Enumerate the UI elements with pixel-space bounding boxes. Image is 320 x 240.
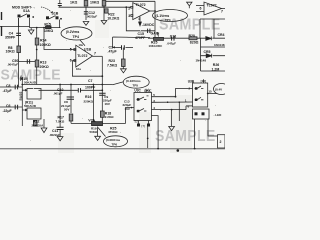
svg-text:C6: C6	[6, 104, 11, 108]
diode CR5	[206, 54, 212, 58]
capacitor C15	[148, 29, 150, 33]
svg-text:TP6: TP6	[112, 143, 118, 147]
wire C11 ground stem	[59, 130, 61, 137]
svg-text:TL072: TL072	[77, 54, 87, 58]
svg-text:.0047μF: .0047μF	[7, 63, 18, 67]
capacitor C14	[122, 45, 125, 49]
resistor R22	[105, 9, 108, 13]
svg-text:1N4148: 1N4148	[196, 58, 207, 62]
wire R12 ground stem	[43, 119, 45, 128]
svg-text:16V: 16V	[105, 102, 110, 106]
svg-text:50KAUD: 50KAUD	[24, 81, 37, 85]
wire S2B down	[195, 119, 218, 149]
wire top right bus	[148, 37, 225, 39]
wire to left edge	[0, 25, 30, 27]
switch S2A contacts	[137, 124, 150, 127]
svg-text:20KΩ5A: 20KΩ5A	[32, 123, 45, 127]
svg-text:10KΩ: 10KΩ	[90, 0, 99, 4]
switch S2B box	[193, 109, 210, 119]
resistor R20	[189, 37, 197, 40]
resistor R8	[17, 46, 21, 53]
node CR5 box	[201, 39, 226, 72]
svg-text:TL072: TL072	[207, 4, 217, 8]
svg-text:.47μF: .47μF	[3, 89, 13, 93]
svg-text:16V: 16V	[125, 107, 130, 111]
svg-text:2: 2	[128, 7, 130, 11]
svg-text:50KΩ: 50KΩ	[90, 130, 99, 134]
op-amp U1A	[133, 3, 150, 20]
svg-text:(0.2Vrms: (0.2Vrms	[66, 30, 80, 34]
capacitor C12	[84, 12, 88, 14]
svg-text:7.5KΩ: 7.5KΩ	[107, 63, 117, 67]
wire left edge stub 2	[1, 26, 3, 36]
resistor R21 10K	[102, 1, 106, 7]
scan streak bands	[170, 95, 192, 153]
svg-text:S2: S2	[135, 120, 139, 124]
potentiometer BASS R10	[27, 89, 41, 100]
speckle noise	[9, 10, 216, 141]
ground 1	[83, 22, 89, 26]
resistor R9 1K	[84, 1, 88, 7]
wire U1B feedback	[72, 61, 102, 77]
svg-text:.47μF: .47μF	[108, 49, 118, 53]
wire BASS bus	[21, 77, 23, 126]
resistor R17	[69, 114, 73, 121]
potentiometer VOL R19	[92, 119, 103, 126]
svg-text:CR5: CR5	[204, 50, 211, 54]
svg-text:470PF: 470PF	[135, 36, 146, 40]
wire R23 stem	[122, 48, 124, 69]
op-amp U2A	[204, 2, 222, 15]
svg-text:7: 7	[221, 10, 223, 14]
ground 2	[101, 21, 107, 25]
resistor R13	[35, 60, 39, 67]
capacitor C9	[99, 93, 105, 95]
svg-text:.22μF: .22μF	[3, 109, 13, 113]
resistor R12	[34, 121, 38, 127]
switch S1B	[46, 16, 62, 20]
test point TP5 oval	[123, 76, 149, 88]
capacitor C8	[15, 85, 17, 90]
wire VOL column	[92, 85, 94, 123]
wire U2A pins	[196, 6, 225, 12]
capacitor C50	[27, 59, 29, 63]
svg-text:100KΩ: 100KΩ	[40, 43, 51, 47]
wire ground stem U3B	[171, 110, 173, 126]
IC U3B box	[193, 83, 208, 107]
wire shunt R21	[103, 1, 105, 20]
wire switch bus	[30, 27, 61, 29]
wire C7 column	[70, 85, 72, 124]
capacitor C4	[16, 33, 21, 35]
svg-text:1Ka: 1Ka	[76, 67, 81, 71]
test point TP3 oval	[153, 10, 188, 22]
svg-text:4: 4	[138, 17, 140, 21]
svg-text:2.2KΩ: 2.2KΩ	[105, 115, 114, 119]
wire U3B pin15	[208, 93, 217, 95]
wire C6 input	[0, 106, 22, 108]
wire U1B output	[93, 55, 103, 57]
ground R12	[41, 128, 47, 133]
switch sym U3C b	[137, 109, 147, 112]
svg-text:S1B: S1B	[52, 12, 59, 16]
svg-text:350PF: 350PF	[5, 35, 16, 39]
wire gain area	[200, 19, 225, 39]
bottom page line	[0, 148, 225, 150]
svg-text:10KΩ: 10KΩ	[44, 29, 53, 33]
test point TP7 oval	[214, 84, 230, 95]
svg-text:100PF: 100PF	[85, 85, 96, 89]
wire U1A pin4 stem	[139, 17, 141, 23]
dashed arc MOD SHIFT	[41, 7, 52, 13]
wire left edge stub 1	[1, 12, 3, 20]
op-amp U1B	[76, 45, 93, 67]
svg-text:TP1: TP1	[19, 75, 23, 81]
wire R14 R13 column	[36, 28, 38, 85]
wire C8 input	[0, 86, 22, 88]
ground U3B	[169, 127, 175, 131]
wire S2A column	[147, 127, 149, 149]
svg-text:U3C: U3C	[134, 89, 141, 93]
wire S1B stub	[59, 0, 61, 28]
test point TP4 oval	[61, 27, 92, 40]
wire top feedback bus	[104, 0, 155, 2]
svg-text:15: 15	[208, 90, 212, 94]
ground S1A bus	[28, 28, 34, 35]
wire S2A stubs	[139, 121, 149, 124]
svg-text:470KΩ: 470KΩ	[108, 130, 118, 134]
svg-text:10KAUDC: 10KAUDC	[149, 44, 164, 48]
svg-text:.001μF: .001μF	[53, 92, 63, 96]
svg-text:- LED: - LED	[214, 113, 223, 117]
wire VOL ground stem	[97, 127, 99, 137]
wire U3C to U3B	[152, 89, 193, 110]
wire U1B output column	[101, 56, 103, 123]
S2B contacts	[195, 112, 205, 115]
svg-text:2: 2	[220, 140, 222, 144]
capacitor C3 stub	[58, 4, 62, 6]
svg-text:TP5: TP5	[133, 84, 139, 88]
svg-text:220KΩ: 220KΩ	[84, 99, 94, 103]
svg-text:U3B: U3B	[188, 79, 195, 83]
wire C50 link	[19, 61, 37, 63]
svg-text:TP3: TP3	[165, 18, 171, 22]
svg-text:C7: C7	[88, 79, 93, 83]
capacitor C13 labels	[123, 100, 132, 111]
wire U1A output	[150, 10, 155, 12]
wire S1A to bus	[19, 18, 30, 28]
pin pads U1A	[131, 6, 133, 16]
svg-text:R15: R15	[44, 23, 50, 27]
capacitor C16	[172, 36, 174, 40]
svg-text:50V: 50V	[64, 107, 69, 111]
wire U1A feedback	[126, 7, 155, 31]
IC U3C box	[134, 93, 152, 121]
svg-text:SAMPLE: SAMPLE	[155, 128, 216, 145]
resistor R18	[100, 111, 104, 117]
svg-text:50KAUD: 50KAUD	[24, 104, 37, 108]
capacitor C6	[15, 105, 17, 110]
resistor R15	[46, 26, 52, 29]
wire C11 column	[59, 85, 61, 128]
svg-text:6: 6	[200, 7, 202, 11]
ground top right	[187, 2, 192, 8]
svg-text:[16]: [16]	[201, 79, 206, 83]
svg-text:20KΩ: 20KΩ	[40, 65, 49, 69]
svg-text:(0.16Vrms: (0.16Vrms	[126, 79, 141, 83]
svg-text:U1B: U1B	[84, 47, 91, 51]
svg-text:.0022μF: .0022μF	[86, 15, 97, 19]
capacitor C10/C7	[39, 89, 103, 91]
svg-text:VOL: VOL	[88, 118, 96, 122]
resistor R23	[122, 59, 126, 67]
wire shunt R9	[85, 7, 87, 20]
wire TP5 pointer	[113, 82, 124, 85]
svg-text:10.2KΩ: 10.2KΩ	[107, 16, 119, 20]
wire TP6 pointer	[98, 128, 106, 137]
wire U3C left pin	[71, 108, 134, 124]
resistor R14	[35, 38, 39, 45]
wire pin branch	[178, 102, 180, 121]
svg-text:.0022μF: .0022μF	[49, 133, 60, 137]
switch sym U3B b	[195, 97, 204, 100]
capacitor C11	[57, 127, 64, 129]
svg-text:1N4148: 1N4148	[214, 43, 225, 47]
potentiometer R11	[27, 108, 41, 119]
wire U3C vcc stub	[145, 89, 147, 93]
wire U3B pin6	[186, 105, 193, 107]
svg-text:10a: 10a	[79, 43, 84, 47]
svg-text:(0.08Vrms: (0.08Vrms	[106, 138, 121, 142]
svg-text:BASS: BASS	[19, 92, 23, 101]
svg-text:5: 5	[70, 47, 72, 51]
wire U3B vcc stub	[203, 79, 205, 83]
wire bus to U1B pin5	[44, 28, 76, 50]
wire CR5	[201, 55, 226, 57]
svg-text:7.5KΩ: 7.5KΩ	[56, 119, 65, 123]
svg-text:6: 6	[70, 59, 72, 63]
svg-text:1KΩ: 1KΩ	[70, 0, 77, 4]
wire TP4 pointer	[80, 40, 85, 46]
svg-text:R20: R20	[189, 34, 195, 38]
wire right vertical bus	[154, 1, 156, 38]
wire C14 branch	[113, 37, 150, 48]
svg-text:3: 3	[128, 14, 130, 18]
wire U3C pin down	[152, 116, 159, 149]
diode CR4	[206, 37, 212, 41]
svg-text:7: 7	[94, 52, 96, 56]
wire left input column	[18, 18, 20, 87]
svg-text:1.2M: 1.2M	[212, 67, 220, 71]
svg-text:CR4: CR4	[218, 33, 225, 37]
arrow -16VDC	[139, 22, 142, 26]
svg-text:[7]: [7]	[142, 124, 146, 128]
svg-text:.047μF: .047μF	[167, 42, 177, 46]
switch S1A	[18, 14, 35, 18]
svg-text:820Ω: 820Ω	[190, 41, 199, 45]
svg-text:S1A: S1A	[23, 9, 30, 13]
potentiometer GAIN R24	[154, 34, 164, 41]
svg-text:GAIN: GAIN	[151, 32, 160, 36]
svg-text:C16: C16	[170, 34, 176, 38]
svg-text:TL072: TL072	[136, 3, 146, 7]
wire long mid bus	[22, 84, 112, 86]
switch sym U3B a	[195, 86, 204, 89]
test point TP6 oval	[104, 136, 128, 147]
svg-text:-16VDC: -16VDC	[142, 23, 155, 27]
pin pads U1B	[74, 49, 76, 62]
ground VOL	[95, 136, 101, 140]
svg-text:C8: C8	[6, 84, 11, 88]
wire signal to U1A	[59, 6, 131, 8]
capacitor C8 22uF	[67, 97, 74, 99]
ground C11	[57, 137, 63, 141]
ground R23	[121, 69, 127, 73]
connector bottom right	[218, 135, 226, 148]
svg-text:(0.4V: (0.4V	[215, 88, 222, 92]
svg-text:TP4: TP4	[73, 35, 79, 39]
svg-text:10KΩ: 10KΩ	[6, 50, 15, 54]
switch sym U3C a	[137, 96, 149, 100]
